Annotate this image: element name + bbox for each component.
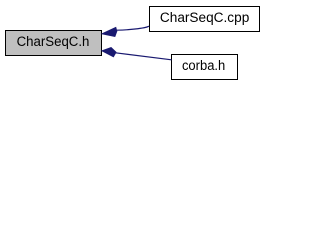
node CharSeqC.h (current file, gray) bbox=[6, 31, 102, 56]
node corba.h bbox=[172, 55, 238, 80]
edge CharSeqC.cpp -> CharSeqC.h : arrowhead bbox=[101, 27, 118, 37]
edge CharSeqC.cpp -> CharSeqC.h : wire (spline) bbox=[117, 26, 149, 30]
edge corba.h -> CharSeqC.h : arrowhead bbox=[101, 47, 117, 57]
edge corba.h -> CharSeqC.h : wire bbox=[116, 53, 172, 60]
svg-text:CharSeqC.cpp: CharSeqC.cpp bbox=[160, 10, 249, 26]
svg-text:CharSeqC.h: CharSeqC.h bbox=[17, 34, 90, 50]
node CharSeqC.cpp bbox=[150, 7, 260, 32]
svg-text:corba.h: corba.h bbox=[182, 58, 225, 74]
